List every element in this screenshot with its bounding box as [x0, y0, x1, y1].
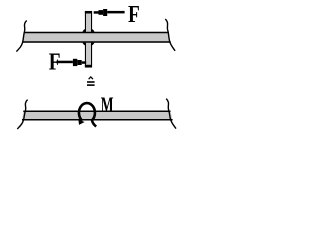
moment arrow M (circular arrow on bottom beam) [78, 103, 96, 126]
svg-text:F: F [128, 2, 140, 28]
top beam [23, 32, 171, 43]
force arrow F bottom (pointing right onto post bottom) [57, 59, 87, 66]
post (vertical bar welded through top beam) [85, 11, 92, 67]
break line top beam right [165, 19, 175, 51]
svg-text:F: F [49, 50, 61, 76]
break line bottom beam left [17, 100, 27, 129]
weld fillet bottom-left [82, 43, 85, 46]
weld fillet top-left [82, 29, 85, 32]
bottom beam [22, 111, 173, 121]
weld fillet top-right [91, 29, 94, 32]
svg-text:M: M [101, 92, 114, 117]
equivalence symbol (corresponds-to) [87, 77, 95, 85]
weld fillet bottom-right [91, 43, 94, 46]
break line top beam left [16, 21, 26, 52]
break line bottom beam right [166, 99, 176, 129]
force arrow F top (pointing left onto post top) [94, 9, 125, 16]
